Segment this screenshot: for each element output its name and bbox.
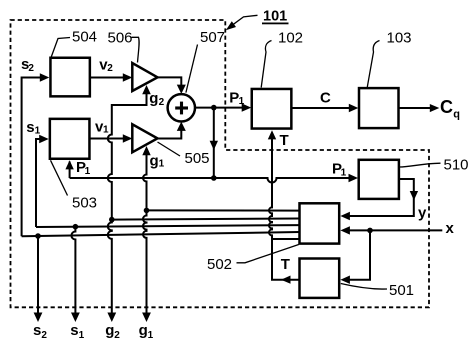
svg-text:2: 2 <box>107 63 113 74</box>
svg-text:1: 1 <box>239 96 245 107</box>
svg-text:x: x <box>446 220 455 237</box>
svg-text:502: 502 <box>207 256 232 273</box>
svg-text:101: 101 <box>263 9 287 25</box>
svg-text:C: C <box>320 90 331 107</box>
svg-text:2: 2 <box>159 97 165 108</box>
svg-text:g: g <box>150 152 159 169</box>
svg-text:q: q <box>453 108 460 120</box>
svg-text:y: y <box>418 205 427 222</box>
svg-text:2: 2 <box>28 63 34 74</box>
svg-text:505: 505 <box>185 150 210 167</box>
svg-text:s: s <box>70 322 78 339</box>
svg-text:503: 503 <box>72 195 97 212</box>
svg-text:g: g <box>149 90 158 107</box>
svg-text:103: 103 <box>387 30 412 47</box>
svg-text:T: T <box>280 132 289 149</box>
svg-text:s: s <box>33 322 41 339</box>
svg-text:507: 507 <box>200 29 225 46</box>
svg-text:1: 1 <box>79 330 85 341</box>
svg-text:504: 504 <box>72 29 97 46</box>
svg-text:C: C <box>440 97 453 117</box>
svg-text:501: 501 <box>389 282 414 299</box>
svg-text:2: 2 <box>41 330 47 341</box>
svg-text:102: 102 <box>278 30 303 47</box>
svg-text:s: s <box>26 119 34 136</box>
svg-text:T: T <box>281 256 290 273</box>
svg-text:g: g <box>105 322 114 339</box>
svg-text:1: 1 <box>148 330 154 341</box>
svg-text:2: 2 <box>114 330 120 341</box>
svg-text:510: 510 <box>444 157 469 174</box>
svg-text:1: 1 <box>159 158 165 169</box>
svg-text:506: 506 <box>108 30 133 47</box>
svg-text:1: 1 <box>35 126 41 137</box>
svg-text:1: 1 <box>85 166 91 177</box>
svg-text:1: 1 <box>341 167 347 178</box>
svg-text:g: g <box>139 322 148 339</box>
svg-text:1: 1 <box>103 125 109 136</box>
